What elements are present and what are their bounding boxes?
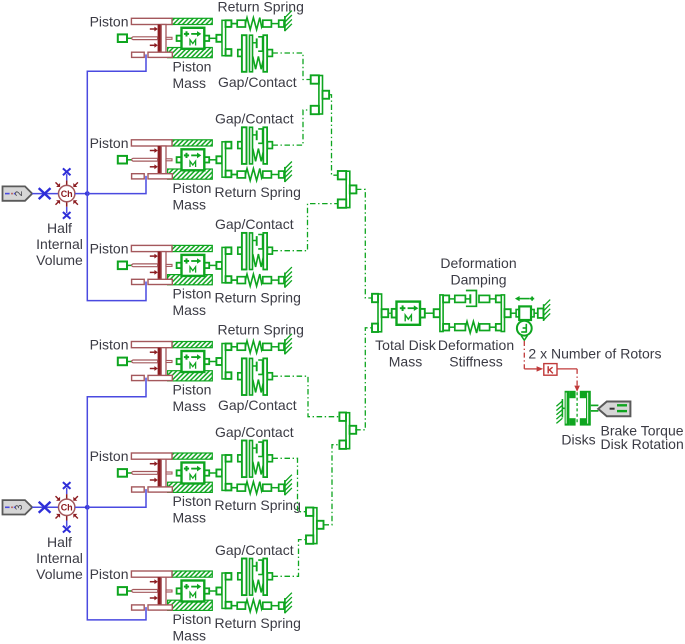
wire to piston 3 (87, 194, 146, 301)
svg-text:Half: Half (47, 220, 72, 236)
hatched wall bottom of M1 (168, 48, 213, 58)
svg-text:Gap/Contact: Gap/Contact (215, 424, 294, 440)
signal wire sensor to gain (523, 341, 525, 369)
wire (511, 312, 516, 314)
wire to piston 4 (87, 378, 146, 508)
svg-text:Piston: Piston (90, 135, 129, 151)
wire to piston 5 (87, 489, 146, 507)
svg-text:Ch: Ch (61, 503, 73, 513)
wire (75, 193, 87, 195)
splitter bracket B2 (209, 142, 231, 177)
piston P1 (118, 18, 173, 57)
junction (85, 191, 90, 196)
svg-text:Deformation: Deformation (440, 255, 516, 271)
splitter bracket B5 (209, 455, 231, 490)
hatched wall bottom of M6 (168, 600, 213, 610)
fixed wall left of disks (556, 399, 564, 423)
valve cross symbol (39, 502, 51, 513)
gap/contact GC3 (238, 233, 273, 270)
svg-text:Volume: Volume (36, 252, 83, 268)
return spring RS3 (231, 267, 292, 288)
hatched wall bottom of M5 (168, 482, 213, 492)
wire gap5 to C5 (272, 458, 306, 511)
mass block M3 (177, 255, 210, 276)
piston P2 (118, 140, 173, 179)
wire to piston 6 (87, 507, 146, 620)
wire C5 to C4 (324, 445, 340, 525)
hatched wall top of M6 (172, 571, 212, 577)
half internal volume Ch element upper (56, 168, 78, 218)
svg-text:Piston: Piston (90, 337, 129, 353)
hatched wall bottom of M3 (168, 275, 213, 285)
svg-text:Disks: Disks (561, 432, 595, 448)
disk stack (Disks) (565, 391, 599, 426)
svg-text:Mass: Mass (173, 75, 206, 91)
port tag 3 (3, 500, 33, 514)
svg-text:Internal: Internal (36, 236, 83, 252)
hatched wall top of M1 (172, 18, 212, 24)
mass block M6 (177, 581, 210, 602)
wire (534, 312, 538, 314)
svg-text:Return Spring: Return Spring (215, 290, 301, 306)
gap/contact GC2 (238, 127, 273, 164)
svg-text:Volume: Volume (36, 566, 83, 582)
svg-text:Return Spring: Return Spring (218, 322, 304, 338)
svg-text:Gap/Contact: Gap/Contact (215, 542, 294, 558)
wire (231, 487, 237, 489)
wire gap1 to C1 (272, 53, 310, 80)
svg-text:Piston: Piston (173, 58, 212, 74)
splitter bracket B3 (209, 247, 231, 282)
svg-text:Piston: Piston (90, 566, 129, 582)
svg-text:Gap/Contact: Gap/Contact (215, 111, 294, 127)
svg-text:Return Spring: Return Spring (215, 184, 301, 200)
svg-text:Piston: Piston (90, 241, 129, 257)
splitter bracket B1 (209, 20, 231, 55)
port tag 2 (3, 186, 33, 200)
wire gap4 to C4 (272, 376, 339, 417)
hatched wall top of M5 (172, 453, 212, 459)
gain block k (2 x number of rotors) (544, 364, 557, 376)
svg-text:Disk Rotation: Disk Rotation (601, 436, 684, 452)
svg-text:Stiffness: Stiffness (449, 354, 502, 370)
return spring RS5 (231, 475, 292, 496)
svg-text:Piston: Piston (173, 611, 212, 627)
svg-text:Piston: Piston (90, 448, 129, 464)
piston P5 (118, 453, 173, 492)
deformation stiffness-damping element (434, 291, 511, 334)
mass block M1 (177, 28, 210, 49)
fixed wall right of sensor (538, 300, 550, 321)
svg-text:Piston: Piston (90, 13, 129, 29)
wire to piston 1 (87, 54, 146, 193)
wire C3 to disk mass (388, 312, 391, 314)
mass block M4 (177, 351, 210, 372)
svg-text:Piston: Piston (173, 382, 212, 398)
merge connector C3 (372, 294, 388, 332)
svg-text:2: 2 (14, 190, 25, 196)
force measurement gauge (517, 320, 532, 340)
svg-text:Piston: Piston (173, 285, 212, 301)
splitter bracket B4 (209, 344, 231, 379)
wire gap6 to C5 (272, 540, 306, 577)
merge connector C4 (339, 413, 356, 449)
svg-text:Half: Half (47, 534, 72, 550)
svg-text:Mass: Mass (173, 398, 206, 414)
svg-text:Mass: Mass (173, 196, 206, 212)
wire to piston 2 (87, 176, 146, 194)
hatched wall bottom of M2 (168, 169, 213, 179)
piston P3 (118, 245, 173, 284)
svg-text:Return Spring: Return Spring (215, 615, 301, 631)
svg-text:Internal: Internal (36, 550, 83, 566)
gap/contact GC1 (238, 35, 273, 72)
svg-text:Mass: Mass (173, 628, 206, 644)
svg-text:Gap/Contact: Gap/Contact (215, 216, 294, 232)
svg-text:Ch: Ch (61, 189, 73, 199)
svg-text:Mass: Mass (173, 510, 206, 526)
wire (32, 506, 58, 508)
wire (425, 312, 434, 314)
mass block M2 (177, 149, 210, 170)
svg-text:Mass: Mass (389, 354, 422, 370)
mass block M5 (177, 463, 210, 484)
svg-text:Return Spring: Return Spring (218, 0, 304, 14)
wire (231, 346, 237, 348)
gap/contact GC6 (238, 559, 273, 596)
merge connector C2 (338, 171, 357, 208)
svg-text:Mass: Mass (173, 302, 206, 318)
svg-text:3: 3 (14, 504, 25, 510)
wire (32, 193, 58, 195)
wire (231, 279, 237, 281)
svg-text:Piston: Piston (173, 180, 212, 196)
hatched wall top of M4 (172, 342, 212, 348)
return spring RS1 (231, 11, 292, 32)
wire C1 to C2 (329, 95, 338, 175)
hatched wall top of M2 (172, 140, 212, 146)
wire (231, 605, 237, 607)
hatched wall top of M3 (172, 245, 212, 251)
wire (231, 23, 237, 25)
piston P4 (118, 342, 173, 381)
return spring RS4 (231, 334, 292, 355)
svg-text:Gap/Contact: Gap/Contact (218, 397, 297, 413)
gap/contact GC4 (238, 358, 273, 395)
wire C4 to C3 (355, 328, 372, 430)
wire (231, 174, 237, 176)
hatched wall bottom of M4 (168, 371, 213, 381)
svg-text:2 x Number of Rotors: 2 x Number of Rotors (528, 346, 661, 362)
wire C2 to C3 (356, 189, 372, 298)
splitter bracket B6 (209, 573, 231, 608)
svg-text:Return Spring: Return Spring (215, 497, 301, 513)
total disk mass block (392, 302, 425, 325)
svg-text:Total Disk: Total Disk (375, 337, 437, 353)
wire (75, 506, 87, 508)
svg-text:Deformation: Deformation (438, 337, 514, 353)
merge connector C1 (311, 75, 329, 114)
svg-text:Damping: Damping (450, 272, 506, 288)
junction (85, 505, 90, 510)
return spring RS6 (231, 593, 292, 614)
wire gap3 to C2 (272, 204, 337, 251)
signal wire gain to disks (557, 368, 577, 370)
merge connector C5 (306, 508, 324, 544)
output port tag Brake Torque / Disk Rotation (598, 402, 630, 417)
force sensor element (515, 296, 534, 320)
half internal volume Ch element lower (56, 482, 78, 532)
piston P6 (118, 571, 173, 610)
svg-text:Piston: Piston (173, 493, 212, 509)
svg-text:Gap/Contact: Gap/Contact (218, 74, 297, 90)
wire gap2 to C1 (272, 110, 310, 145)
gap/contact GC5 (238, 441, 273, 478)
return spring RS2 (231, 162, 292, 183)
valve cross symbol (39, 188, 51, 199)
